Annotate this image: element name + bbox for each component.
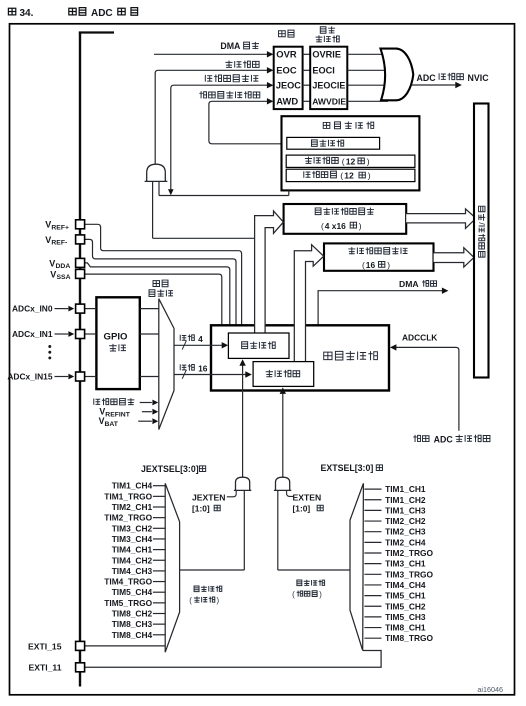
wire: compare result to gate region <box>159 195 289 197</box>
wire: VDDA supply route <box>85 263 230 325</box>
svg-text:REF-: REF- <box>51 240 67 247</box>
injected trigger mux trapezoid <box>165 483 179 652</box>
svg-text:REF+: REF+ <box>51 225 69 232</box>
wires: GPIO to mux <box>140 308 159 310</box>
svg-text:TIM4_CH1: TIM4_CH1 <box>112 545 153 555</box>
wire: gate input B to watchdog line <box>158 181 160 195</box>
hollow arrow: ADC to regular register (drawn over top edge) <box>294 245 323 363</box>
svg-text:AWVDIE: AWVDIE <box>312 97 346 107</box>
svg-text:TIM5_CH3: TIM5_CH3 <box>385 612 426 622</box>
svg-text:34.: 34. <box>20 8 34 19</box>
svg-text:[1:0]: [1:0] <box>192 504 210 514</box>
svg-text:REFINT: REFINT <box>105 412 130 419</box>
flags box (OVR EOC JEOC AWD) <box>274 47 303 109</box>
wires: enable box to OR gate <box>347 53 388 55</box>
svg-text:(: ( <box>342 156 345 166</box>
svg-text:TIM2_TRGO: TIM2_TRGO <box>385 548 433 558</box>
hollow arrow: injected register to bus <box>406 209 476 229</box>
wire: end of injected conversion line to JEOC <box>171 85 268 190</box>
label 启动触发 (规则组) <box>297 580 325 586</box>
compare result box 比较结果 <box>287 137 380 149</box>
svg-text:TIM4_CH4: TIM4_CH4 <box>385 580 426 590</box>
svg-text:NVIC: NVIC <box>468 73 490 83</box>
svg-text:TIM1_CH1: TIM1_CH1 <box>385 484 426 494</box>
svg-text:JEOC: JEOC <box>276 81 301 91</box>
svg-text:): ) <box>387 260 390 270</box>
svg-text:[1:0]: [1:0] <box>293 504 311 514</box>
svg-text:): ) <box>217 596 220 605</box>
label 模拟看门狗事件 <box>199 91 259 98</box>
svg-text:DMA: DMA <box>399 279 419 289</box>
svg-text:(: ( <box>362 260 365 270</box>
label 温度传感器 <box>94 398 135 405</box>
svg-text:): ) <box>319 590 322 599</box>
label 多达 4 <box>180 334 194 340</box>
junction arrow down onto watchdog line <box>168 189 174 195</box>
wire: EXTEN gate input <box>277 490 279 570</box>
svg-text:TIM2_TRGO: TIM2_TRGO <box>104 513 152 523</box>
figure title 单个 ADC 框图 <box>69 8 86 16</box>
svg-text:TIM5_CH2: TIM5_CH2 <box>385 601 426 611</box>
svg-text:EOCI: EOCI <box>312 66 334 76</box>
wire: ADCCLK from prescaler <box>395 347 459 430</box>
svg-text:ADCCLK: ADCCLK <box>402 332 437 342</box>
hollow arrow: ADC to injected register <box>255 211 284 334</box>
svg-text:EXTEN: EXTEN <box>293 493 322 503</box>
svg-text:TIM1_CH3: TIM1_CH3 <box>385 505 426 515</box>
svg-text:4: 4 <box>198 334 203 344</box>
svg-text:ADCx_IN15: ADCx_IN15 <box>7 372 52 382</box>
svg-text:16: 16 <box>198 363 208 373</box>
svg-text:TIM8_TRGO: TIM8_TRGO <box>385 633 433 643</box>
svg-text:V: V <box>45 220 51 230</box>
svg-text:EOC: EOC <box>276 65 297 76</box>
label connector JEXTEN <box>227 490 236 496</box>
wire: up to 16 regular inputs <box>174 374 246 376</box>
svg-text:TIM1_CH4: TIM1_CH4 <box>112 481 153 491</box>
wire: OR gate output ADC interrupt <box>412 84 456 86</box>
svg-text:ADCx_IN0: ADCx_IN0 <box>12 304 53 314</box>
wire: JEXTEN gate input <box>243 490 245 570</box>
svg-text:12: 12 <box>344 171 354 181</box>
regular trigger mux trapezoid <box>350 483 363 650</box>
svg-text:TIM8_CH4: TIM8_CH4 <box>112 630 153 640</box>
label 启动触发 (注入组) <box>194 586 222 592</box>
svg-text:SSA: SSA <box>57 274 71 281</box>
svg-text:EXTI_11: EXTI_11 <box>29 663 62 673</box>
svg-text:): ) <box>359 221 362 231</box>
label 标志 <box>279 30 294 37</box>
analog multiplexer trapezoid <box>159 299 174 430</box>
svg-text:16: 16 <box>366 260 376 270</box>
svg-text:EXTI_15: EXTI_15 <box>28 641 62 651</box>
svg-text:JEOCIE: JEOCIE <box>312 81 345 91</box>
svg-text:TIM4_CH3: TIM4_CH3 <box>112 566 153 576</box>
label 多达 16 <box>180 364 194 370</box>
label 模数转换器 <box>324 351 378 360</box>
label 注入转换结束 <box>205 74 258 82</box>
svg-text:TIM3_CH2: TIM3_CH2 <box>112 523 153 533</box>
svg-text:AWD: AWD <box>276 96 298 107</box>
wire: VSSA supply route <box>85 274 222 325</box>
svg-text:DDA: DDA <box>56 263 71 270</box>
svg-text:V: V <box>45 235 51 245</box>
wire: regular trigger up to regular channels <box>282 393 284 477</box>
wire: analog watchdog event line to AWD <box>209 101 287 144</box>
injected data register box 注入数据寄存器 (4 x16 位) <box>284 204 407 234</box>
svg-text:OVR: OVR <box>276 49 297 60</box>
wire: regular mux output to gate <box>278 569 350 571</box>
regular channels box 规则通道 <box>253 362 314 387</box>
label 中断 使能位 <box>320 26 335 33</box>
svg-text:(: ( <box>340 171 343 181</box>
wire: DMA overrun line to OVR <box>154 53 268 55</box>
svg-text:TIM1_CH2: TIM1_CH2 <box>385 495 426 505</box>
label connector EXTEN <box>287 490 293 496</box>
vertical bus label <box>477 206 487 257</box>
svg-text:): ) <box>368 171 371 181</box>
svg-text:V: V <box>50 269 56 279</box>
gate G1 (EOC dome gate) <box>147 164 166 181</box>
svg-text:V: V <box>49 258 55 268</box>
svg-text:TIM2_CH2: TIM2_CH2 <box>385 516 426 526</box>
svg-text:BAT: BAT <box>105 421 119 428</box>
svg-text:ai16046: ai16046 <box>477 685 503 694</box>
wire: up to 4 injected inputs <box>174 344 223 346</box>
svg-text:TIM5_TRGO: TIM5_TRGO <box>104 598 152 608</box>
analog watchdog box 模拟看门狗 <box>282 116 420 190</box>
interrupt enable bits box <box>310 47 347 109</box>
svg-text:TIM8_CH2: TIM8_CH2 <box>112 609 153 619</box>
OR gate U1 (interrupt OR) <box>381 49 414 101</box>
svg-text:TIM2_CH3: TIM2_CH3 <box>385 527 426 537</box>
figure title 图 34. <box>8 8 15 15</box>
GPIO port box <box>96 297 139 389</box>
svg-text:GPIO: GPIO <box>104 332 129 343</box>
svg-text:TIM4_TRGO: TIM4_TRGO <box>104 577 152 587</box>
wire: VREF- supply route <box>85 239 237 325</box>
svg-text:TIM1_TRGO: TIM1_TRGO <box>104 491 152 501</box>
svg-text:TIM5_CH4: TIM5_CH4 <box>112 587 153 597</box>
svg-text:(: ( <box>189 596 192 605</box>
gate G3 EXTEN dome <box>276 477 290 490</box>
injected channels box 注入通道 <box>228 333 289 358</box>
wire: gate input A down to injected data path <box>152 181 154 238</box>
svg-text:DMA: DMA <box>220 41 241 51</box>
svg-text:ADC: ADC <box>417 73 437 83</box>
threshold high box 阈值上限 (12位) <box>286 155 415 167</box>
svg-text:TIM3_CH4: TIM3_CH4 <box>112 534 153 544</box>
label 来自 ADC 预分频器 <box>413 435 429 442</box>
regular data register box 规则数据寄存器 (16 位) <box>324 243 434 270</box>
svg-text:JEXTEN: JEXTEN <box>192 493 225 503</box>
wire: DMA request <box>318 291 442 325</box>
svg-text:): ) <box>367 156 370 166</box>
svg-text:TIM8_CH1: TIM8_CH1 <box>385 623 426 633</box>
svg-text:TIM3_TRGO: TIM3_TRGO <box>385 569 433 579</box>
svg-text:TIM5_CH1: TIM5_CH1 <box>385 591 426 601</box>
label 转换结束 <box>225 61 259 68</box>
wire: top-left stub <box>79 31 114 33</box>
gate G2 JEXTEN dome <box>236 477 250 490</box>
svg-text:OVRIE: OVRIE <box>312 50 341 60</box>
ADC converter box 模数转换器 <box>211 325 389 390</box>
address/data bus bar 地址/数据总线 <box>474 104 489 378</box>
svg-text:EXTSEL[3:0]: EXTSEL[3:0] <box>321 463 374 473</box>
pin squares on rail <box>76 304 85 313</box>
svg-text:TIM4_CH2: TIM4_CH2 <box>112 555 153 565</box>
svg-text:TIM2_CH4: TIM2_CH4 <box>385 537 426 547</box>
svg-text:12: 12 <box>346 156 356 166</box>
svg-text:TIM8_CH3: TIM8_CH3 <box>112 619 153 629</box>
svg-text:JEXTSEL[3:0]: JEXTSEL[3:0] <box>141 464 199 474</box>
wire: injected mux output to gate <box>180 569 245 571</box>
wire: VREF+ supply route <box>85 224 242 325</box>
svg-text:TIM2_CH1: TIM2_CH1 <box>112 502 153 512</box>
wires: flags to enable box connectors <box>303 53 311 55</box>
svg-text:(: ( <box>292 590 295 599</box>
threshold low box 阈值下限 (12 位) <box>286 169 415 181</box>
wire: horizontal to injected shaft <box>153 237 255 239</box>
label 模拟 复用器 <box>153 280 168 287</box>
svg-text:ADCx_IN1: ADCx_IN1 <box>12 329 53 339</box>
wire: injected trigger up to injected channels <box>242 365 244 477</box>
svg-text:TIM3_CH1: TIM3_CH1 <box>385 559 426 569</box>
svg-text:ADC: ADC <box>434 434 454 444</box>
wire: main left vertical rail <box>79 33 81 687</box>
svg-text:(: ( <box>321 221 324 231</box>
ellipsis dots between IN1 and IN15 <box>48 345 51 348</box>
hollow arrow: regular register to bus <box>434 248 474 267</box>
svg-text:4 x16: 4 x16 <box>325 221 346 231</box>
svg-text:ADC: ADC <box>91 8 113 19</box>
wire: end of conversion line to EOC <box>155 70 268 164</box>
